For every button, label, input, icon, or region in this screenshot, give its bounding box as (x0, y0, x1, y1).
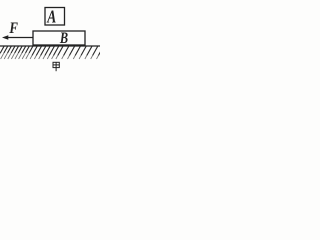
svg-text:B: B (59, 29, 68, 47)
block B (33, 31, 85, 45)
ground hatching (0, 46, 103, 55)
force arrow F (2, 35, 33, 39)
ground line (0, 45, 100, 47)
label A (46, 8, 56, 27)
ground hatching lower tails (0, 53, 98, 59)
block A (45, 8, 65, 26)
svg-text:F: F (9, 20, 19, 38)
svg-text:A: A (46, 8, 56, 27)
label B (59, 29, 68, 47)
caption 甲 (drawn strokes) (53, 62, 59, 71)
label F (9, 20, 19, 38)
